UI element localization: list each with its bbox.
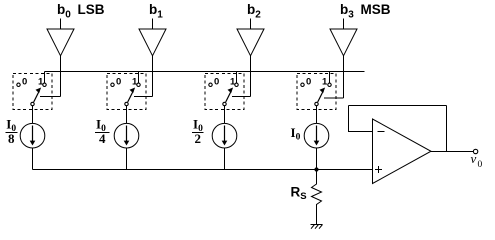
wire S3 pole to current source: [316, 106, 318, 124]
wire current source 3 to bottom rail: [316, 148, 318, 170]
wire summing bus (contact-1 rail): [45, 71, 365, 73]
node b3 bit input label: [340, 2, 391, 21]
junction bottom rail / RS: [314, 167, 318, 171]
current source I0/2 for bit 2: [212, 123, 237, 148]
svg-text:b3: b3: [340, 2, 354, 21]
op-amp U1: [373, 119, 432, 184]
svg-text:0: 0: [116, 77, 121, 88]
switch S1 contact 1: [132, 77, 140, 88]
svg-text:0: 0: [306, 77, 311, 88]
svg-text:0: 0: [478, 160, 483, 170]
wire S3 contact 1 to summing bus: [329, 72, 331, 84]
wire current source 1 to bottom rail: [126, 148, 128, 170]
wire current source 0 to bottom rail: [32, 148, 34, 170]
switch S2 contact 0: [209, 77, 219, 88]
current source I0/1 for bit 3: [304, 123, 329, 148]
value label I0/4: [95, 117, 110, 147]
switch S1 contact 0: [111, 77, 121, 88]
switch S0 arm: [34, 88, 41, 103]
value label I0: [291, 125, 301, 143]
node b1 bit input label: [149, 2, 163, 21]
switch S3 pole contact: [315, 102, 318, 105]
inverter driver for b1: [139, 29, 166, 56]
switch S1 (dashed box): [107, 74, 146, 110]
value label I0/2: [192, 117, 204, 147]
switch S3 arm: [318, 88, 325, 103]
wire S0 contact 1 to summing bus: [44, 72, 46, 84]
switch S0 contact 0: [17, 77, 27, 88]
wire feedback output to inverting input: [349, 106, 447, 152]
switch S3 (dashed box): [297, 74, 336, 110]
ground: [311, 225, 323, 229]
switch S1 arm: [128, 88, 135, 103]
svg-text:1: 1: [132, 77, 138, 88]
svg-text:LSB: LSB: [78, 2, 105, 17]
svg-text:1: 1: [230, 77, 236, 88]
switch S2 pole contact: [223, 102, 226, 105]
switch S1 pole contact: [125, 102, 128, 105]
wire S2 pole to current source: [224, 106, 226, 124]
svg-text:v: v: [471, 151, 477, 166]
svg-text:4: 4: [99, 131, 106, 146]
wire b3 switch control: [324, 56, 344, 98]
switch S3 contact 1: [322, 77, 331, 88]
inverter driver for b3: [330, 29, 357, 56]
svg-text:I0: I0: [291, 125, 301, 143]
wire b1 input stub: [152, 19, 154, 30]
node vO output terminal: [473, 149, 477, 153]
svg-text:8: 8: [8, 131, 15, 146]
value label I0/8: [5, 117, 17, 147]
switch S2 (dashed box): [205, 74, 244, 110]
svg-text:b2: b2: [247, 2, 261, 21]
switch S0 pole contact: [31, 102, 34, 105]
wire b0 switch control: [40, 56, 61, 97]
wire op-amp output: [431, 151, 473, 153]
wire S2 contact 1 to summing bus: [236, 72, 238, 84]
wire S0 pole to current source: [32, 106, 34, 124]
svg-text:1: 1: [322, 77, 328, 88]
svg-text:0: 0: [22, 77, 27, 88]
wire b2 input stub: [250, 19, 252, 30]
wire b0 input stub: [60, 19, 62, 30]
switch S0 (dashed box): [13, 74, 52, 110]
switch S3 contact 0: [301, 77, 311, 88]
switch S2 arm: [226, 88, 233, 103]
svg-text:MSB: MSB: [361, 2, 391, 17]
value label vO: [471, 151, 483, 170]
svg-text:b1: b1: [149, 2, 163, 21]
svg-text:0: 0: [214, 77, 219, 88]
inverter driver for b2: [237, 29, 264, 56]
node b2 bit input label: [247, 2, 261, 21]
wire b2 switch control: [232, 56, 251, 97]
current source I0/4 for bit 1: [114, 123, 139, 148]
wire b1 switch control: [134, 56, 153, 97]
wire current source 2 to bottom rail: [224, 148, 226, 170]
value label RS: [291, 185, 307, 203]
switch S2 contact 1: [230, 77, 238, 88]
svg-text:1: 1: [38, 77, 44, 88]
switch S0 contact 1: [38, 77, 46, 88]
node b0 bit input label: [57, 2, 105, 21]
resistor RS: [312, 170, 322, 225]
wire bottom rail to op-amp + input: [33, 169, 373, 171]
current source I0/8 for bit 0: [20, 123, 45, 148]
inverter driver for b0: [47, 29, 74, 56]
svg-text:b0: b0: [57, 2, 71, 21]
svg-text:RS: RS: [291, 185, 307, 203]
wire b3 input stub: [343, 19, 345, 30]
wire S1 contact 1 to summing bus: [138, 72, 140, 84]
svg-text:2: 2: [194, 131, 201, 146]
wire S1 pole to current source: [126, 106, 128, 124]
wire op-amp inverting input: [348, 131, 373, 133]
